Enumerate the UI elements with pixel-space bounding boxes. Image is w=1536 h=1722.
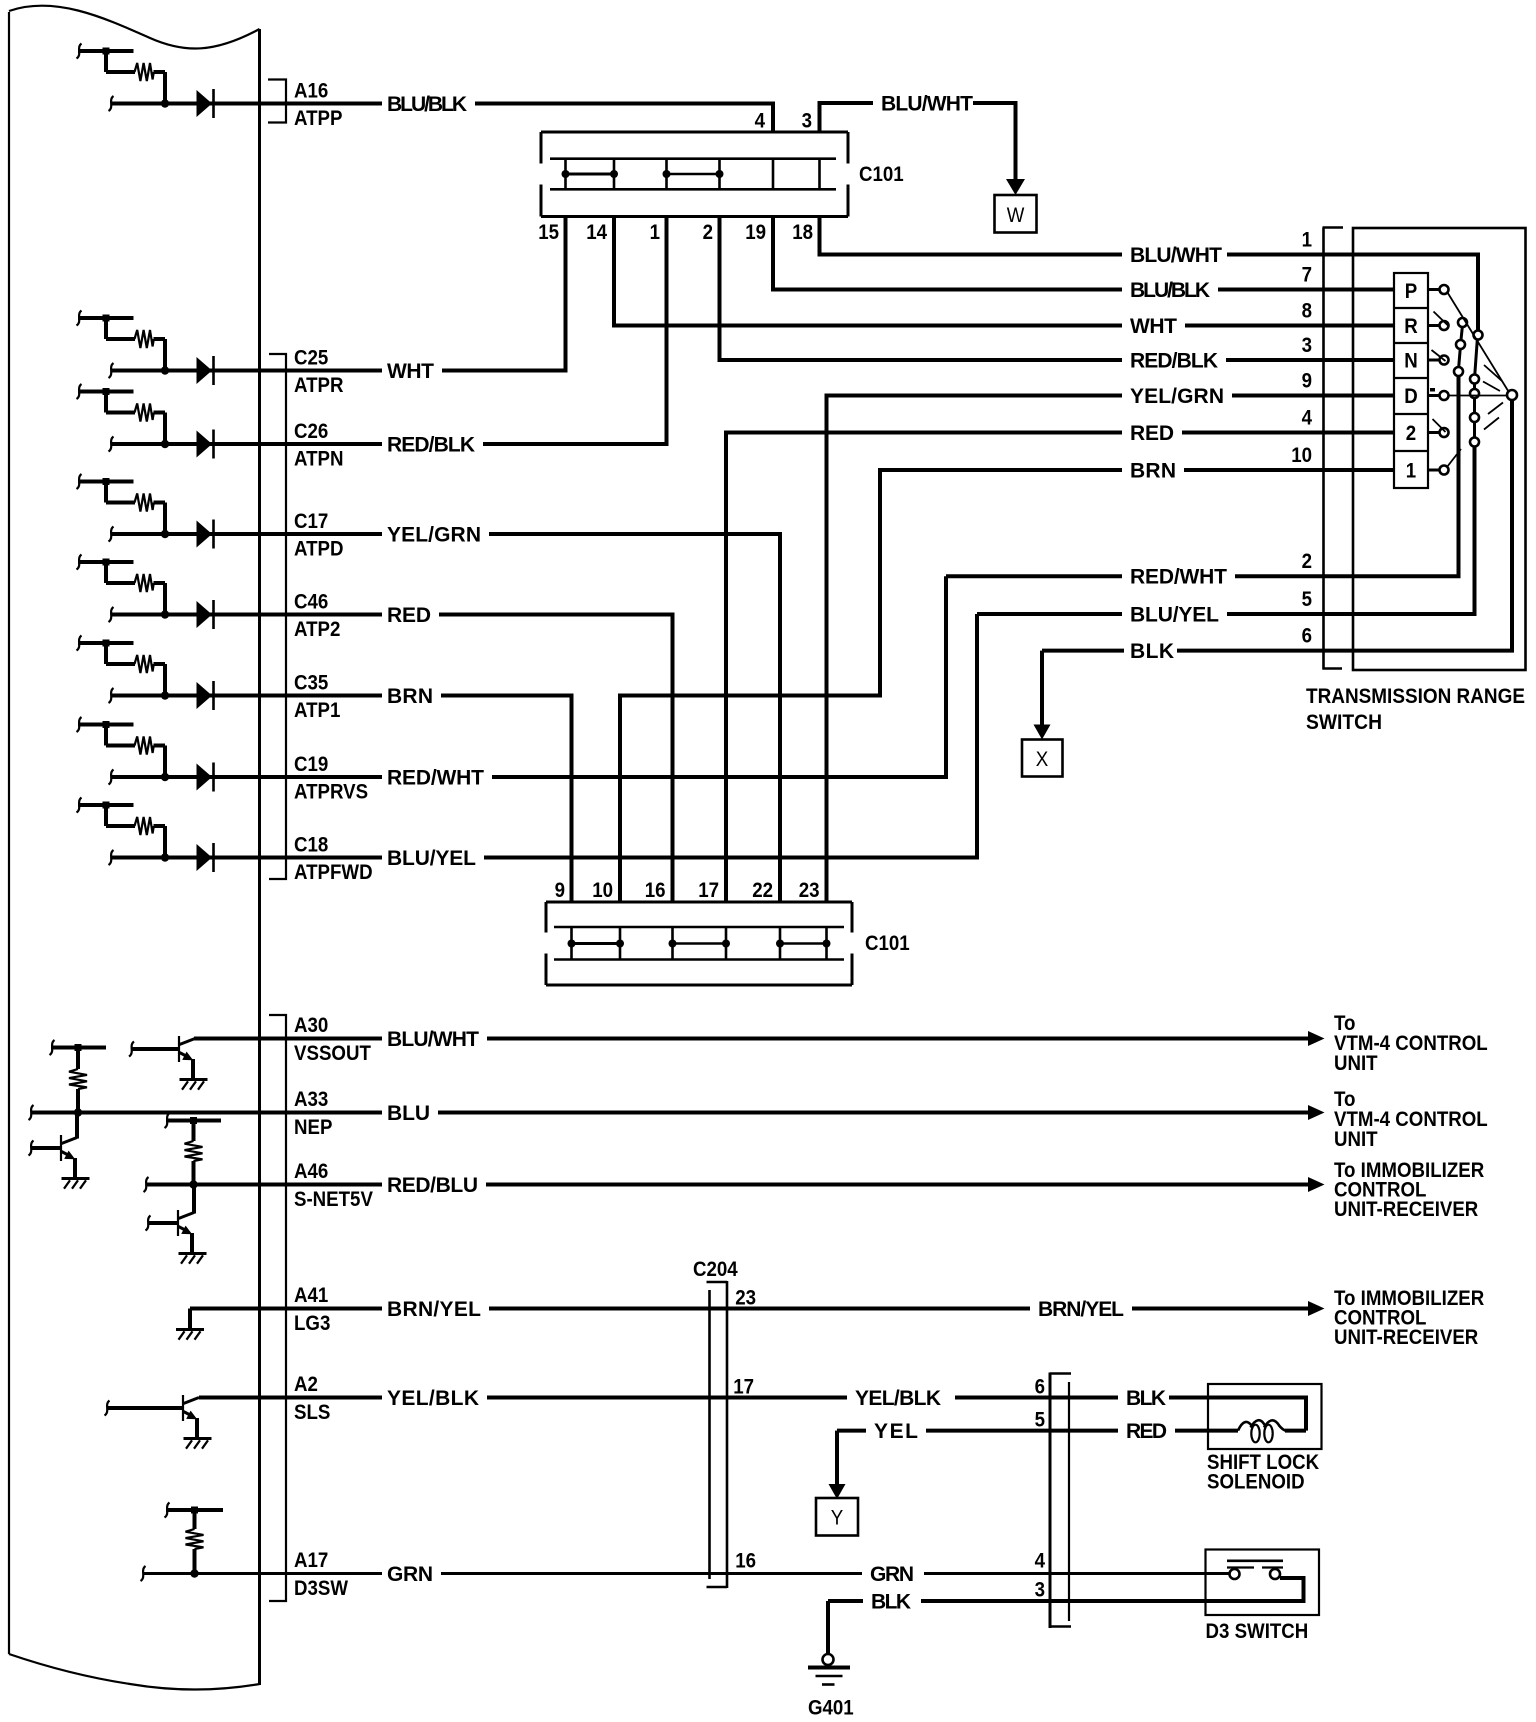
svg-text:GRN: GRN [387, 1563, 433, 1586]
svg-text:5: 5 [1302, 588, 1313, 611]
svg-text:R: R [1404, 315, 1418, 338]
fixed contact 1 [1440, 466, 1449, 475]
svg-text:NEP: NEP [294, 1116, 332, 1139]
svg-text:BLU/YEL: BLU/YEL [1130, 604, 1219, 627]
wire C26 ATPN internal [111, 442, 382, 446]
svg-text:D: D [1404, 385, 1418, 408]
svg-text:3: 3 [802, 110, 812, 133]
wire BLU/WHT C101 pin 3 to connector W [820, 103, 874, 132]
ECM/PCM module boundary right edge (connector face) [258, 29, 261, 1685]
svg-text:4: 4 [755, 110, 766, 133]
svg-text:BLU/BLK: BLU/BLK [387, 93, 467, 116]
transistor Q1 (VSS output driver) [179, 1036, 208, 1090]
svg-text:UNIT: UNIT [1334, 1128, 1378, 1151]
svg-text:9: 9 [1302, 370, 1312, 393]
diode D8 [197, 843, 214, 872]
diode D5 [197, 600, 214, 629]
svg-text:YEL: YEL [874, 1420, 918, 1443]
svg-text:WHT: WHT [1130, 315, 1177, 338]
svg-text:BLU/BLK: BLU/BLK [1130, 279, 1210, 302]
pin bracket C25..C18 group [269, 354, 286, 879]
wire BLU/WHT A30 VSSOUT to VTM-4 control unit [194, 1037, 382, 1041]
svg-text:4: 4 [1302, 407, 1313, 430]
svg-text:LG3: LG3 [294, 1312, 330, 1335]
wire RED C101 pin 17 to range switch pin 4 [726, 433, 1122, 903]
svg-text:A30: A30 [294, 1014, 328, 1037]
fixed contact 2 [1440, 428, 1449, 437]
wire BRN C35 to C101 pin 9 [441, 696, 572, 903]
wire BRN/YEL A41 LG3 through C204 pin 23 to immobilizer [190, 1307, 382, 1311]
wire BLU/YEL to range switch pin 5 [977, 612, 1122, 616]
connector C101 (lower) internal link pins 22-23 [776, 940, 831, 948]
wire BLK to shift lock solenoid [1169, 1398, 1306, 1431]
svg-text:TRANSMISSION RANGE: TRANSMISSION RANGE [1306, 685, 1525, 708]
wire YEL/GRN C101 pin 23 to range switch pin 9 [827, 396, 1123, 903]
svg-text:ATPRVS: ATPRVS [294, 781, 368, 804]
svg-text:W: W [1007, 204, 1025, 227]
svg-text:X: X [1036, 748, 1049, 771]
wire RED to solenoid coil [1175, 1429, 1238, 1433]
svg-text:A2: A2 [294, 1373, 318, 1396]
svg-text:ATP2: ATP2 [294, 618, 340, 641]
svg-text:C26: C26 [294, 420, 328, 443]
fixed contact stubs [1428, 290, 1439, 471]
svg-text:8: 8 [1302, 300, 1313, 323]
svg-text:RED: RED [387, 604, 431, 627]
wire YEL branch to connector Y [835, 1431, 839, 1490]
svg-text:RED/BLK: RED/BLK [1130, 350, 1218, 373]
movable contact chain pin 2 net [1454, 318, 1467, 376]
resistor R7 pull-up network for C19/ATPRVS [77, 717, 170, 781]
svg-text:1: 1 [1406, 460, 1417, 483]
svg-text:BRN/YEL: BRN/YEL [387, 1298, 481, 1321]
switch blade at R [1434, 312, 1449, 327]
movable contact chain pins 1 and 5 net [1470, 331, 1483, 447]
shift lock solenoid box [1208, 1384, 1322, 1449]
wire RED/BLU A46 S-NET5V to immobilizer [146, 1183, 382, 1187]
tick at D [1430, 388, 1435, 392]
transistor Q2 (NEP driver) [61, 1135, 90, 1189]
svg-text:6: 6 [1035, 1376, 1045, 1399]
wire BLK range switch pin 6 to connector X [1042, 649, 1124, 653]
resistor R3 pull-up network for C26/ATPN [77, 384, 170, 448]
wire BLU A33 NEP to VTM-4 control unit [31, 1111, 382, 1115]
svg-text:17: 17 [698, 879, 719, 902]
svg-text:C101: C101 [859, 163, 904, 186]
svg-text:BLU/WHT: BLU/WHT [387, 1028, 479, 1051]
wire BLU/BLK A16 to C101 pin 4 [475, 104, 773, 133]
connector C101 (upper) pin pass-through stubs [566, 159, 820, 190]
wire Q2 base lead [31, 1146, 61, 1150]
svg-text:BLK: BLK [1130, 640, 1174, 663]
svg-text:RED/BLK: RED/BLK [387, 434, 475, 457]
wire RED/WHT C19 to switch pin 2 riser [492, 576, 946, 777]
wire RED/BLK C26 to C101 pin 1 [483, 217, 667, 445]
pin bracket A30..A17 group [269, 1015, 286, 1601]
svg-text:10: 10 [592, 879, 613, 902]
svg-text:10: 10 [1291, 444, 1312, 467]
svg-text:C17: C17 [294, 510, 328, 533]
fixed contact P [1440, 285, 1449, 294]
wire YEL/GRN C17 to C101 pin 22 [489, 534, 780, 902]
switch blade at 2 [1433, 419, 1446, 432]
svg-text:UNIT: UNIT [1334, 1052, 1378, 1075]
ECM/PCM module boundary left edge [8, 12, 10, 1654]
svg-text:23: 23 [799, 879, 820, 902]
connector C101 (upper) internal link pins 1-2 [663, 170, 724, 178]
connector C101 (lower) pin pass-through stubs [572, 927, 827, 960]
svg-text:C18: C18 [294, 834, 329, 857]
resistor R9 pull-up on NEP [50, 1040, 107, 1113]
wire WHT C25 to C101 pin 15 [442, 217, 566, 371]
transistor Q4 (SLS driver) [183, 1395, 212, 1449]
svg-text:YEL/BLK: YEL/BLK [387, 1387, 479, 1410]
diode D1 [197, 89, 214, 118]
wire WHT C101 pin 14 to range switch pin 8 [614, 217, 1122, 326]
svg-text:19: 19 [745, 221, 766, 244]
svg-text:BLU/WHT: BLU/WHT [1130, 244, 1222, 267]
resistor R2 pull-up network for C25/ATPR [77, 311, 170, 375]
ECM/PCM module boundary torn bottom edge (wave) [9, 1654, 260, 1690]
svg-text:RED/WHT: RED/WHT [387, 767, 484, 790]
svg-text:A33: A33 [294, 1088, 328, 1111]
svg-text:G401: G401 [808, 1697, 854, 1720]
svg-text:C25: C25 [294, 347, 329, 370]
diode D6 [197, 681, 214, 710]
svg-text:3: 3 [1035, 1579, 1045, 1602]
svg-text:22: 22 [752, 879, 773, 902]
svg-text:2: 2 [1406, 422, 1416, 445]
diode D2 [197, 356, 214, 385]
svg-text:ATP1: ATP1 [294, 699, 341, 722]
wire A16 ATPP internal [111, 102, 382, 106]
wire C25 ATPR internal [111, 369, 382, 373]
svg-text:23: 23 [735, 1287, 756, 1310]
wire BLK D3 switch to ground G401 [826, 1601, 830, 1654]
arrow down to W [1006, 179, 1025, 195]
svg-text:ATPR: ATPR [294, 374, 344, 397]
svg-text:A46: A46 [294, 1160, 328, 1183]
connector C101 (lower) internal link pins 9-10 [568, 940, 625, 948]
svg-text:4: 4 [1035, 1550, 1046, 1573]
svg-text:6: 6 [1302, 625, 1312, 648]
wire C35 ATP1 internal [111, 694, 382, 698]
arrow down to X [1040, 651, 1044, 731]
svg-text:18: 18 [792, 221, 813, 244]
transistor Q3 (S-NET5V driver) [178, 1210, 207, 1264]
fixed contact D [1440, 391, 1449, 400]
wire GRN A17 D3SW through C204 pin 16 to D3 switch [143, 1572, 382, 1575]
svg-text:BLK: BLK [871, 1591, 911, 1614]
svg-text:BLU/WHT: BLU/WHT [881, 93, 973, 116]
wire YEL/BLK A2 SLS through C204 pin 17 [199, 1396, 382, 1400]
svg-text:SLS: SLS [294, 1401, 330, 1424]
svg-text:C35: C35 [294, 672, 329, 695]
svg-text:UNIT-RECEIVER: UNIT-RECEIVER [1334, 1198, 1478, 1221]
svg-text:BRN/YEL: BRN/YEL [1038, 1298, 1124, 1321]
svg-text:ATPD: ATPD [294, 538, 344, 561]
ECM/PCM module boundary torn top edge (wave) [9, 6, 260, 49]
svg-text:Y: Y [831, 1507, 844, 1530]
junction node NEP [74, 1108, 82, 1116]
switch blade at N [1432, 350, 1446, 361]
selector rays near pivot [1483, 365, 1503, 430]
fixed contact N [1440, 356, 1449, 365]
resistor R8 pull-up network for C18/ATPFWD [77, 798, 170, 862]
svg-text:2: 2 [703, 221, 713, 244]
svg-text:C19: C19 [294, 753, 328, 776]
svg-text:9: 9 [555, 879, 565, 902]
connector W box [995, 195, 1037, 233]
D3 switch contacts [1227, 1561, 1283, 1579]
wire Q1 base lead [132, 1047, 180, 1051]
diode D4 [197, 520, 214, 549]
diode D7 [197, 763, 214, 792]
wire Q3 base lead [148, 1221, 178, 1225]
wire Q3 collector to S-NET5V node [192, 1185, 196, 1214]
svg-text:BLK: BLK [1126, 1387, 1166, 1410]
svg-text:A17: A17 [294, 1549, 328, 1572]
connector C101 (upper) outline [541, 132, 848, 217]
svg-text:3: 3 [1302, 334, 1312, 357]
svg-text:16: 16 [735, 1550, 756, 1573]
transmission range switch connector bar [1323, 228, 1344, 670]
wire BLU/YEL C18 to switch pin 5 riser [484, 614, 977, 858]
svg-text:ATPP: ATPP [294, 107, 343, 130]
resistor R1 pull-up network for A16/ATPP [77, 44, 170, 108]
resistor R5 pull-up network for C46/ATP2 [77, 555, 170, 619]
svg-text:2: 2 [1302, 550, 1312, 573]
connector C101 (lower) outline [546, 902, 852, 985]
wire C18 ATPFWD internal [111, 856, 382, 860]
svg-text:C204: C204 [693, 1258, 738, 1281]
svg-text:16: 16 [645, 879, 666, 902]
wire Q2 collector to NEP node [75, 1113, 79, 1139]
diode D3 [197, 430, 214, 459]
svg-text:ATPN: ATPN [294, 448, 344, 471]
svg-text:17: 17 [733, 1376, 754, 1399]
range switch position box column P R N D 2 1 [1394, 273, 1428, 488]
wire RED/WHT to range switch pin 2 [946, 574, 1122, 578]
transmission range switch S1 box [1353, 228, 1526, 670]
svg-text:UNIT-RECEIVER: UNIT-RECEIVER [1334, 1326, 1478, 1349]
wire BLU/BLK C101 pin 19 to range switch pin 7 [773, 217, 1122, 290]
selector ray D row [1449, 395, 1507, 397]
svg-text:BRN: BRN [387, 685, 433, 708]
pin bracket A16 [268, 80, 286, 123]
svg-text:N: N [1404, 350, 1418, 373]
common pivot contact (pin 6 net) [1507, 390, 1517, 400]
connector X box [1022, 740, 1063, 777]
svg-text:YEL/GRN: YEL/GRN [387, 524, 481, 547]
arrow down to Y [829, 1484, 846, 1499]
connector C101 (upper) internal link pins 15-14 [562, 170, 619, 178]
svg-text:7: 7 [1302, 264, 1312, 287]
connector Y box [816, 1498, 858, 1536]
resistor R11 pull-up on D3SW [165, 1503, 224, 1574]
svg-text:YEL/BLK: YEL/BLK [855, 1387, 941, 1410]
svg-text:ATPFWD: ATPFWD [294, 861, 373, 884]
svg-text:GRN: GRN [870, 1563, 914, 1586]
svg-text:P: P [1405, 280, 1418, 303]
resistor R4 pull-up network for C17/ATPD [77, 474, 170, 538]
switch blade at 1 [1447, 449, 1461, 467]
junction node D3SW [190, 1569, 198, 1577]
resistor R6 pull-up network for C35/ATP1 [77, 636, 170, 700]
svg-text:D3 SWITCH: D3 SWITCH [1206, 1620, 1309, 1643]
selector ray from P contact to pivot [1448, 293, 1509, 392]
svg-text:A41: A41 [294, 1284, 329, 1307]
svg-text:RED: RED [1126, 1420, 1167, 1443]
svg-text:C46: C46 [294, 591, 328, 614]
D3 switch box [1206, 1550, 1320, 1616]
ground G401 [808, 1654, 850, 1685]
svg-text:SWITCH: SWITCH [1306, 711, 1382, 734]
svg-text:15: 15 [538, 221, 559, 244]
svg-text:D3SW: D3SW [294, 1577, 348, 1600]
junction node S-NET5V [189, 1180, 197, 1188]
svg-text:C101: C101 [865, 932, 910, 955]
svg-text:VSSOUT: VSSOUT [294, 1042, 371, 1065]
svg-text:BLU/YEL: BLU/YEL [387, 847, 476, 870]
wire RED C46 to C101 pin 16 [439, 615, 673, 903]
svg-text:RED: RED [1130, 422, 1174, 445]
wire RED/BLK C101 pin 2 to range switch pin 3 [720, 217, 1123, 361]
resistor R10 pull-up on S-NET5V [165, 1113, 222, 1185]
wire C46 ATP2 internal [111, 613, 382, 617]
connector C204 [707, 1281, 728, 1588]
svg-text:BLU: BLU [387, 1102, 430, 1125]
ground (LG3 logic ground) [188, 1309, 192, 1330]
svg-text:5: 5 [1035, 1409, 1046, 1432]
svg-text:YEL/GRN: YEL/GRN [1130, 385, 1224, 408]
wire BRN C101 pin 10 to range switch pin 10 [620, 470, 1122, 902]
svg-text:RED/WHT: RED/WHT [1130, 566, 1227, 589]
wire C19 ATPRVS internal [111, 775, 382, 779]
svg-text:1: 1 [650, 221, 661, 244]
svg-text:14: 14 [586, 221, 607, 244]
svg-text:WHT: WHT [387, 360, 434, 383]
svg-text:RED/BLU: RED/BLU [387, 1174, 478, 1197]
wire Q4 base lead [107, 1406, 183, 1410]
solenoid coil L1 [1238, 1420, 1306, 1442]
wire C17 ATPD internal [111, 532, 382, 536]
wire BLU/WHT C101 pin 18 to range switch pin 1 [820, 217, 1123, 255]
svg-text:SOLENOID: SOLENOID [1207, 1471, 1305, 1494]
connector C101 (lower) internal link pins 16-17 [669, 940, 731, 948]
svg-text:A16: A16 [294, 80, 328, 103]
fixed contact R [1440, 321, 1449, 330]
svg-text:S-NET5V: S-NET5V [294, 1188, 373, 1211]
svg-text:1: 1 [1302, 229, 1313, 252]
inline connector (shift lock / D3) bar [1050, 1373, 1071, 1629]
svg-text:BRN: BRN [1130, 460, 1176, 483]
